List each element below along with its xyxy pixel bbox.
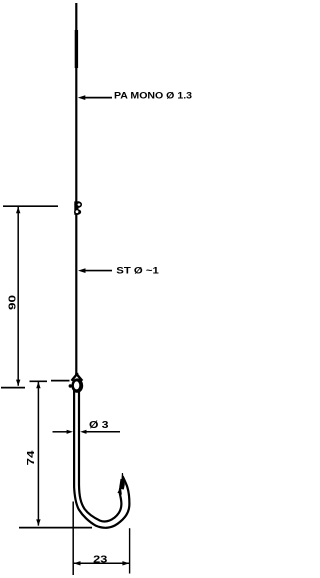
label arrow: ST bbox=[78, 268, 112, 273]
dimension 90: vertical dimension line bbox=[17, 207, 19, 386]
dimension Ø3: right line + arrowhead bbox=[80, 430, 86, 434]
svg-text:90: 90 bbox=[8, 294, 19, 310]
svg-text:23: 23 bbox=[93, 554, 108, 565]
wire: main leader line top section bbox=[75, 3, 77, 202]
dimension 23: left extension line bbox=[72, 502, 74, 576]
dimension 90: bottom extension line bbox=[1, 387, 25, 389]
dimension 90: top extension line bbox=[3, 205, 58, 207]
dimension 90: top arrowhead bbox=[16, 207, 20, 213]
dimension Ø3: left line + arrowhead bbox=[53, 431, 69, 433]
wire: thicker segment of leader line bbox=[75, 30, 78, 68]
wire: leader line lower section bbox=[75, 214, 77, 375]
hook wire: outer contour (shank + bend + up to point) bbox=[74, 389, 129, 528]
svg-text:PA MONO Ø 1.3: PA MONO Ø 1.3 bbox=[114, 91, 192, 101]
hook point tip bbox=[121, 473, 125, 490]
dimension 23: dimension line with arrowheads bbox=[74, 562, 130, 564]
svg-text:Ø 3: Ø 3 bbox=[89, 420, 109, 431]
svg-text:74: 74 bbox=[26, 450, 37, 466]
dimension 74: bottom arrowhead bbox=[36, 519, 40, 525]
hook wire: inner contour bbox=[79, 390, 122, 521]
knot: barrel knot joining leader sections bbox=[74, 201, 82, 214]
hook barb bbox=[117, 487, 122, 495]
hook knot cone above eye bbox=[72, 373, 83, 381]
dimension 23: right extension line bbox=[129, 528, 131, 573]
dimension 74: bottom extension line (hook bottom tangent) bbox=[19, 527, 92, 529]
hook eye bbox=[69, 378, 84, 392]
dimension 90: bottom arrowhead bbox=[16, 380, 20, 386]
svg-text:ST Ø ~1: ST Ø ~1 bbox=[116, 265, 159, 275]
dimension 74: top arrowhead bbox=[36, 382, 40, 388]
dimension 74: vertical dimension line bbox=[37, 382, 39, 526]
dimension 74: top extension lines bbox=[30, 380, 48, 382]
label arrow: PA MONO bbox=[78, 95, 112, 100]
